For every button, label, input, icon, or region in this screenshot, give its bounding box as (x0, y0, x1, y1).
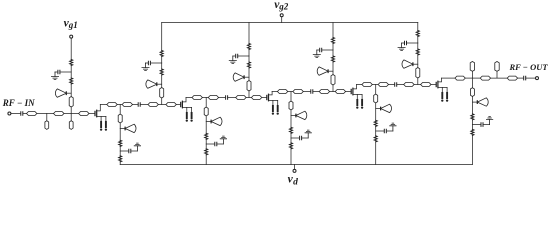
shunt line drain stage 3 (289, 101, 293, 110)
open stub input 1 (45, 121, 49, 130)
wire drain decoupling branch stage 2 (206, 143, 214, 145)
transmission line TL4 (107, 103, 117, 107)
wire TL16 to node E1 (373, 84, 379, 86)
transmission line TL18 (404, 83, 414, 87)
wire stub branch stage 4 drain (376, 108, 381, 110)
wire node to R5b (417, 43, 419, 49)
resistor R3b gate bias (248, 62, 251, 68)
ground drain bypass stage 3 (305, 130, 311, 138)
wire drain stub node stage 2 (205, 116, 207, 133)
shunt line gate stage 2 (160, 88, 164, 99)
shunt line drain stage 5 (470, 88, 474, 97)
wire drain stub node stage 1 (119, 123, 121, 140)
wire TL5 to C12 (133, 104, 138, 106)
wire stub branch stage 2 drain (206, 121, 211, 123)
transmission line TL19 (421, 83, 431, 87)
resistor R3c drain bias (290, 127, 293, 133)
shunt line gate stage 4 (331, 75, 335, 86)
wire vd bottom rail (120, 164, 472, 166)
capacitor C3g bypass (236, 54, 238, 58)
wire stub branch stage 4 gate (328, 70, 333, 72)
wire stub branch stage 1 gate (66, 92, 71, 94)
ground gate bypass stage 1 (51, 72, 58, 80)
wire TL3 to Q1 gate (89, 113, 95, 115)
wire C23 to TL10 (228, 97, 235, 99)
transmission line TL22 (507, 76, 517, 80)
wire cap to ground stage 4 (317, 49, 319, 51)
wire R5b to stub node (417, 55, 419, 68)
radial stub gate stage 2 (146, 80, 157, 88)
capacitor C4d bypass (384, 129, 386, 133)
wire cap to ground stage 1 (55, 71, 57, 73)
ground drain bypass stage 5 (486, 117, 492, 125)
transmission line TL17 (378, 83, 388, 87)
wire drain bias drop stage 2 (205, 98, 207, 108)
shunt line gate stage 3 (247, 81, 251, 92)
wire to gate line stage 4 (332, 85, 334, 92)
transmission line TL6 (148, 103, 158, 107)
ground drain bypass stage 2 (220, 136, 226, 144)
resistor R1b gate bias (70, 78, 73, 84)
wire node F2 stub up (496, 71, 498, 78)
capacitor C1g bypass (58, 70, 60, 74)
wire TL6 to node B2 (159, 104, 166, 106)
capacitor C1d bypass (129, 149, 131, 153)
svg-text:vd: vd (288, 173, 299, 187)
wire drain decoupling branch stage 3 (291, 137, 299, 139)
transmission line TL13 (293, 90, 303, 94)
ground drain bypass stage 4 (390, 123, 396, 131)
wire R4a to node (332, 44, 334, 51)
transistor Q1 (95, 105, 107, 131)
wire drain stub node stage 5 (471, 97, 473, 114)
wire R3a to node (248, 50, 250, 57)
svg-text:RF − OUT: RF − OUT (509, 62, 549, 72)
transmission line TL12 (277, 90, 287, 94)
wire vg1 feed (70, 38, 72, 59)
wire TL17 to C45 (389, 84, 395, 86)
resistor R5b gate bias (416, 49, 419, 55)
capacitor C-out DC block (524, 76, 526, 80)
wire gate decoupling branch stage 1 (61, 71, 72, 73)
open stub input 2 (69, 121, 73, 130)
wire drain decoupling branch stage 4 (376, 130, 384, 132)
transmission line TL5 (122, 103, 132, 107)
wire to gate line stage 2 (161, 98, 163, 105)
capacitor C23 interstage (226, 96, 228, 100)
wire drain decoupling branch stage 1 (120, 150, 128, 152)
transmission line TL14 (319, 90, 329, 94)
capacitor C34 interstage (311, 90, 313, 94)
wire cap to ground stage 1 drain (131, 150, 137, 152)
wire TL14 to node D2 (330, 91, 335, 93)
wire cap to ground stage 2 drain (217, 143, 223, 145)
wire drain chain to rail stage 5 (471, 135, 473, 164)
wire node to R3b (248, 56, 250, 62)
wire to drain decoupling node stage 5 (471, 120, 473, 129)
wire gate bias drop stage 5 (417, 23, 419, 31)
wire C-in to TL1 (23, 113, 26, 115)
radial stub drain stage 5 (477, 98, 488, 106)
wire TL7 to Q2 gate (176, 104, 180, 106)
wire TL11 to Q3 gate (262, 97, 267, 99)
svg-text:vg1: vg1 (64, 18, 78, 30)
wire node F1 stub up (471, 71, 473, 78)
wire node A2 stub drop (70, 114, 72, 121)
transistor Q2 (181, 98, 193, 122)
wire cap to ground stage 5 drain (484, 124, 490, 126)
transistor Q5 (436, 78, 448, 102)
wire Q4 drain line (357, 84, 362, 86)
wire stub branch stage 3 drain (291, 115, 296, 117)
resistor R5c drain bias (471, 114, 474, 120)
resistor R4b gate bias (332, 56, 335, 62)
wire Q5 drain line (442, 77, 455, 79)
wire drain chain to rail stage 2 (205, 155, 207, 165)
capacitor C4g bypass (320, 48, 322, 52)
wire R1a to node (70, 66, 72, 73)
wire node to R2b (161, 63, 163, 69)
radial stub drain stage 4 (381, 104, 392, 112)
wire gate decoupling branch stage 3 (238, 55, 249, 57)
wire C45 to TL18 (397, 84, 403, 86)
resistor R1d drain bias (119, 156, 122, 162)
port vg2 (280, 14, 283, 17)
wire to RF-OUT (526, 77, 535, 79)
wire R5a to node (417, 37, 419, 44)
ground gate bypass stage 5 (398, 43, 405, 51)
shunt line drain stage 4 (374, 94, 378, 103)
capacitor C45 interstage (395, 83, 397, 87)
wire TL9 to C23 (219, 97, 225, 99)
wire drain chain to rail stage 3 (290, 149, 292, 165)
wire gate decoupling branch stage 5 (407, 42, 418, 44)
capacitor C3d bypass (300, 136, 302, 140)
wire Q2 drain line (186, 97, 192, 99)
wire Q1 drain line (100, 104, 106, 106)
port RF-OUT (536, 77, 539, 80)
wire drain bias drop stage 4 (375, 85, 377, 95)
wire TL21 to node F2 (491, 77, 507, 79)
resistor R3a gate bias (248, 44, 251, 50)
wire to gate line stage 3 (248, 91, 250, 98)
wire input (11, 113, 20, 115)
wire TL10 to node C2 (246, 97, 251, 99)
transmission line TL16 (362, 83, 372, 87)
wire drain decoupling branch stage 5 (472, 124, 480, 126)
transmission line TL21 (480, 76, 490, 80)
resistor R4a gate bias (332, 38, 335, 44)
resistor R2a gate bias (160, 51, 163, 57)
capacitor C2g bypass (148, 61, 150, 65)
wire gate bias drop stage 3 (248, 23, 250, 44)
transmission line TL1 (27, 112, 37, 116)
port vd (293, 169, 296, 172)
wire vg2 stem (281, 17, 283, 23)
wire C34 to TL14 (313, 91, 319, 93)
wire gate bias drop stage 4 (332, 23, 334, 38)
wire R4b to stub node (332, 62, 334, 75)
resistor R2d drain bias (205, 149, 208, 155)
svg-text:RF − IN: RF − IN (2, 98, 35, 108)
transistor Q3 (267, 92, 279, 115)
wire cap to ground stage 3 (233, 55, 235, 57)
wire TL1 to node A1 (37, 113, 53, 115)
capacitor C12 interstage (138, 103, 140, 107)
wire gate bias drop stage 2 (161, 23, 163, 51)
wire cap to ground stage 4 drain (387, 130, 393, 132)
ground gate bypass stage 2 (142, 63, 149, 71)
capacitor C-in DC block (21, 112, 23, 116)
wire stub branch stage 5 drain (472, 101, 477, 103)
wire drain stub node stage 4 (375, 103, 377, 120)
transmission line TL15 (335, 90, 345, 94)
wire to drain decoupling node stage 3 (290, 133, 292, 143)
radial stub gate stage 1 (55, 89, 66, 97)
wire R1b to stub node (70, 84, 72, 97)
ground gate bypass stage 3 (229, 56, 236, 64)
resistor R2b gate bias (160, 69, 163, 75)
wire TL12 to node D1 (288, 91, 293, 93)
transmission line TL9 (208, 96, 218, 100)
resistor R1a gate bias (70, 60, 73, 66)
resistor R5a gate bias (416, 31, 419, 37)
wire TL18 to node E2 (414, 84, 420, 86)
shunt line gate stage 5 (416, 68, 420, 79)
capacitor C5d bypass (481, 123, 483, 127)
svg-text:vg2: vg2 (274, 0, 289, 12)
resistor R3d drain bias (290, 143, 293, 149)
transmission line TL10 (236, 96, 246, 100)
wire C12 to TL6 (141, 104, 148, 106)
wire vd stem (294, 165, 296, 170)
wire drain bias drop stage 5 (471, 78, 473, 88)
wire to gate line stage 1 (70, 107, 72, 114)
radial stub gate stage 5 (402, 60, 413, 68)
wire cap to ground stage 2 (146, 62, 148, 64)
wire stub branch stage 3 gate (244, 76, 249, 78)
resistor R2c drain bias (205, 133, 208, 139)
wire drain chain to rail stage 1 (119, 162, 121, 165)
wire TL8 to node C1 (203, 97, 209, 99)
resistor R1c drain bias (119, 140, 122, 146)
wire to drain decoupling node stage 2 (205, 139, 207, 149)
wire R3b to stub node (248, 68, 250, 81)
transmission line TL20 (455, 76, 465, 80)
wire to gate line stage 5 (417, 78, 419, 85)
open stub output 2 (495, 62, 499, 72)
radial stub gate stage 3 (233, 73, 244, 81)
wire drain bias drop stage 1 (119, 105, 121, 115)
port RF-IN (8, 112, 11, 115)
resistor R5d drain bias (471, 129, 474, 135)
wire drain chain to rail stage 4 (375, 142, 377, 165)
wire drain bias drop stage 3 (290, 92, 292, 102)
wire gate decoupling branch stage 4 (322, 49, 333, 51)
transmission line TL7 (166, 103, 176, 107)
shunt line gate stage 1 (69, 97, 73, 108)
wire TL20 to node F1 (465, 77, 480, 79)
wire TL4 to node B1 (117, 104, 122, 106)
radial stub gate stage 4 (317, 67, 328, 75)
wire node to R1b (70, 72, 72, 78)
wire node A1 stub drop (46, 114, 48, 121)
wire gate decoupling branch stage 2 (151, 62, 162, 64)
resistor R4c drain bias (374, 120, 377, 126)
wire to drain decoupling node stage 4 (375, 126, 377, 136)
shunt line drain stage 1 (118, 114, 122, 123)
transistor Q4 (351, 85, 363, 109)
wire cap to ground stage 3 drain (302, 137, 308, 139)
transmission line TL8 (192, 96, 202, 100)
ground gate bypass stage 4 (313, 50, 320, 58)
port vg1 (70, 35, 73, 38)
wire stub branch stage 5 gate (413, 63, 418, 65)
radial stub drain stage 3 (296, 111, 307, 119)
wire TL15 to Q4 gate (346, 91, 351, 93)
wire drain stub node stage 3 (290, 110, 292, 127)
wire stub branch stage 1 drain (120, 128, 125, 130)
wire vg2 top rail (162, 22, 418, 24)
wire stub branch stage 2 gate (157, 83, 162, 85)
shunt line drain stage 2 (204, 107, 208, 116)
wire cap to ground stage 5 (402, 42, 404, 44)
ground drain bypass stage 1 (134, 143, 140, 151)
transmission line TL3 (79, 112, 89, 116)
wire TL22 to C-out (518, 77, 523, 79)
wire to drain decoupling node stage 1 (119, 146, 121, 156)
radial stub drain stage 2 (211, 117, 222, 125)
wire node to R4b (332, 50, 334, 56)
wire TL2 to node A2 (64, 113, 78, 115)
wire Q3 drain line (272, 91, 277, 93)
wire R2a to node (161, 57, 163, 64)
radial stub drain stage 1 (125, 124, 136, 132)
capacitor C2d bypass (215, 142, 217, 146)
wire R2b to stub node (161, 75, 163, 88)
wire TL13 to C34 (304, 91, 311, 93)
open stub output 1 (470, 62, 474, 72)
capacitor C5g bypass (405, 41, 407, 45)
transmission line TL2 (54, 112, 65, 116)
transmission line TL11 (251, 96, 261, 100)
resistor R4d drain bias (374, 136, 377, 142)
wire TL19 to Q5 gate (431, 84, 436, 86)
